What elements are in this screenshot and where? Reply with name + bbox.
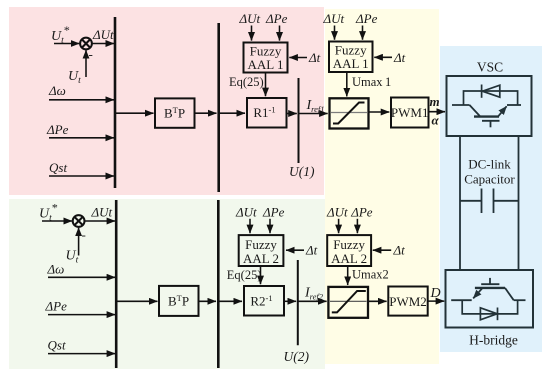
svg-text:Δt: Δt xyxy=(393,50,406,65)
wire BTP1 to bus bar 2 xyxy=(195,112,217,114)
block Fuzzy AAL 1 (pink) xyxy=(244,43,288,73)
wire Qst to bus bar 1 xyxy=(49,175,114,177)
wire dt into Fuzzy AAL 2 xyxy=(286,249,304,251)
block Fuzzy AAL 2 (yellow) xyxy=(327,235,371,266)
block VSC box xyxy=(447,76,532,136)
wire Ut feedback up into S1 xyxy=(85,50,87,77)
panel: controller 1 region (pink) xyxy=(9,7,324,195)
svg-text:ΔPe: ΔPe xyxy=(45,299,68,314)
block Fuzzy AAL1 (yellow) xyxy=(329,42,373,73)
svg-text:Δω: Δω xyxy=(48,83,66,98)
wire Ut* to S1 xyxy=(54,43,79,45)
svg-text:α: α xyxy=(432,113,440,128)
saturation 1 axis midline xyxy=(331,112,367,114)
svg-text:Δt: Δt xyxy=(308,50,321,65)
svg-text:-: - xyxy=(89,47,93,62)
wire PWM1 to VSC xyxy=(429,111,446,113)
wire Fuzzy AAL 2 to R2 xyxy=(260,266,262,284)
svg-text:ΔPe: ΔPe xyxy=(262,204,285,219)
svg-text:ΔPe: ΔPe xyxy=(350,204,373,219)
svg-text:ΔUt: ΔUt xyxy=(326,204,348,219)
panel: plant region (blue) xyxy=(440,46,542,352)
transistor Q1 (VSC IGBT) xyxy=(452,105,521,127)
svg-text:PWM1: PWM1 xyxy=(391,105,429,120)
wire Ut feedback up into S2 xyxy=(78,228,80,256)
svg-text:ΔUt: ΔUt xyxy=(239,11,261,26)
wire dPe to bus bar 1 xyxy=(49,137,114,139)
panel: controller 2 region (green) xyxy=(9,199,325,369)
wire dUt into Fuzzy AAL 1 xyxy=(251,26,253,41)
wire dPe into Fuzzy AAL 2 (yellow) xyxy=(356,219,358,233)
svg-text:Δt: Δt xyxy=(393,243,406,258)
summing junction S2 xyxy=(73,215,85,227)
saturation 2 axis midline xyxy=(330,300,367,302)
wire dUt into Fuzzy AAL1 (yellow) xyxy=(334,26,336,40)
wire DC-link left rail xyxy=(459,136,461,270)
svg-text:Qst: Qst xyxy=(48,338,66,353)
diode D2 (H-bridge freewheeling diode) xyxy=(462,300,517,320)
bus bar 1 (input collector) xyxy=(114,17,117,188)
wire dUt into Fuzzy AAL 2 (yellow) xyxy=(338,219,340,233)
bus bar 3 (U(1) tap line) xyxy=(298,78,300,163)
svg-text:Umax 1: Umax 1 xyxy=(352,75,391,89)
svg-text:ΔUt: ΔUt xyxy=(323,11,345,26)
wire dUt into Fuzzy AAL 2 xyxy=(249,219,251,233)
wire dPe into Fuzzy AAL 2 xyxy=(269,219,271,233)
block PWM2 xyxy=(388,287,427,316)
svg-text:AAL 2: AAL 2 xyxy=(243,251,279,266)
svg-text:PWM2: PWM2 xyxy=(389,294,427,309)
capacitor C1 (DC-link capacitor) xyxy=(460,189,519,214)
svg-text:ΔPe: ΔPe xyxy=(265,11,288,26)
wire S1 to bus bar 1 xyxy=(92,43,114,45)
wire Fuzzy AAL1 to saturation 1 xyxy=(346,72,348,96)
svg-text:Umax2: Umax2 xyxy=(352,267,389,281)
wire PWM2 to H-bridge xyxy=(428,300,445,302)
summing junction S1 xyxy=(80,38,92,50)
block Fuzzy AAL 2 (green) xyxy=(239,235,284,266)
svg-text:U(1): U(1) xyxy=(289,164,315,179)
block saturation 1 xyxy=(330,98,369,128)
wire bus bar 3b to saturation 2 xyxy=(298,300,327,302)
svg-text:H-bridge: H-bridge xyxy=(469,333,518,348)
svg-text:Qst: Qst xyxy=(49,160,67,175)
wire dt into Fuzzy AAL 2 (yellow) xyxy=(373,249,391,251)
svg-text:VSC: VSC xyxy=(477,60,503,75)
svg-text:Fuzzy: Fuzzy xyxy=(333,237,365,252)
wire dPe to bus bar 1b xyxy=(48,314,115,316)
bus bar 1b (input collector 2) xyxy=(115,200,118,368)
transistor Q2 (H-bridge IGBT) xyxy=(451,278,525,300)
svg-text:ΔUt: ΔUt xyxy=(91,205,113,220)
wire bus bar 1 to BTP1 xyxy=(115,112,154,114)
svg-text:ΔUt: ΔUt xyxy=(235,204,257,219)
block H-bridge box xyxy=(446,270,534,328)
wire saturation 1 to PWM1 xyxy=(369,111,390,113)
bus bar 2 xyxy=(217,23,220,192)
svg-text:Δω: Δω xyxy=(47,262,65,277)
wire bus bar 1b to BTP2 xyxy=(116,300,157,302)
svg-text:ΔPe: ΔPe xyxy=(46,122,69,137)
wire S2 to bus bar 1b xyxy=(85,220,116,222)
svg-text:m: m xyxy=(430,94,440,109)
wire dt into Fuzzy AAL1 (yellow) xyxy=(374,56,392,58)
wire R1 to bus bar 3 xyxy=(287,113,297,115)
svg-text:-: - xyxy=(82,227,86,242)
svg-text:U(2): U(2) xyxy=(284,349,310,364)
block R1 inverse xyxy=(247,98,287,128)
svg-text:Eq(25): Eq(25) xyxy=(229,75,264,89)
panel: PWM channel region (yellow) xyxy=(325,9,439,364)
saturation 2 curve xyxy=(332,291,366,312)
wire Qst to bus bar 1b xyxy=(48,353,115,355)
wire bus bar 2 to R1 xyxy=(219,112,245,114)
wire R2 to bus bar 3b xyxy=(284,300,296,302)
block BTP2 (state feedback gain 2) xyxy=(159,286,199,316)
svg-text:ΔUt: ΔUt xyxy=(92,27,114,42)
svg-text:AAL 2: AAL 2 xyxy=(331,251,367,266)
svg-text:Eq(25): Eq(25) xyxy=(227,268,262,282)
saturation 1 curve xyxy=(333,103,365,124)
block PWM1 xyxy=(391,98,429,128)
wire DC-link right rail xyxy=(518,136,520,270)
wire dPe into Fuzzy AAL1 (yellow) xyxy=(362,26,364,40)
svg-text:Δt: Δt xyxy=(305,243,318,258)
svg-text:AAL 1: AAL 1 xyxy=(248,57,284,72)
wire dPe into Fuzzy AAL 1 xyxy=(279,26,281,41)
block R2 inverse xyxy=(244,286,284,316)
bus bar 3b (U(2) tap line) xyxy=(297,260,299,345)
wire dt into Fuzzy AAL 1 xyxy=(289,57,307,59)
wire saturation 2 to PWM2 xyxy=(368,300,387,302)
wire dw to bus bar 1 xyxy=(49,99,114,101)
svg-text:ΔPe: ΔPe xyxy=(355,11,378,26)
wire BTP2 to bus bar 2b xyxy=(199,300,217,302)
wire bus bar 2b to R2 xyxy=(218,300,242,302)
wire Ut* to S2 xyxy=(42,220,72,222)
bus bar 2b xyxy=(217,200,220,368)
svg-text:D: D xyxy=(430,286,441,301)
block saturation 2 xyxy=(328,287,368,318)
block BTP1 (state feedback gain) xyxy=(155,98,195,127)
svg-text:DC-link: DC-link xyxy=(468,157,511,172)
wire Fuzzy AAL 1 to R1 xyxy=(265,73,267,97)
diode D1 (VSC freewheeling diode) xyxy=(464,85,518,106)
svg-text:Fuzzy: Fuzzy xyxy=(245,237,277,252)
wire dw to bus bar 1b xyxy=(48,276,115,278)
wire Fuzzy AAL 2 to saturation 2 xyxy=(347,266,349,285)
svg-text:Capacitor: Capacitor xyxy=(464,172,515,187)
svg-text:AAL 1: AAL 1 xyxy=(333,56,369,71)
wire bus bar 3 to saturation 1 xyxy=(299,113,328,115)
